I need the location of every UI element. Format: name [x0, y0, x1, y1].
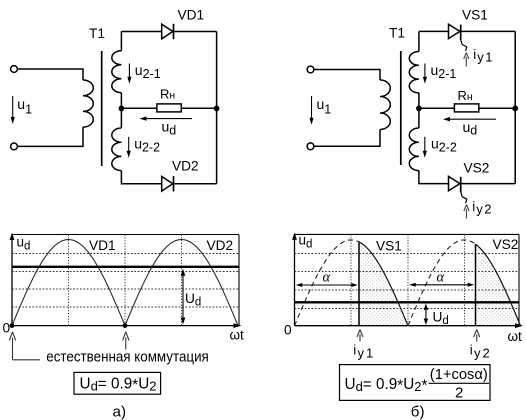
svg-text:0: 0 — [284, 323, 292, 338]
svg-text:естественная коммутация: естественная коммутация — [46, 349, 209, 366]
svg-text:VD1: VD1 — [89, 238, 116, 253]
svg-text:ωt: ωt — [230, 328, 245, 343]
svg-text:VD2: VD2 — [207, 238, 234, 253]
svg-text:VS2: VS2 — [493, 237, 519, 252]
svg-text:а): а) — [113, 404, 127, 420]
svg-text:0: 0 — [3, 320, 11, 335]
svg-text:Rн: Rн — [458, 88, 473, 103]
svg-text:Ud= 0.9*U2: Ud= 0.9*U2 — [80, 376, 157, 395]
svg-text:Rн: Rн — [160, 87, 175, 102]
svg-text:(1+cosα): (1+cosα) — [430, 366, 488, 383]
svg-text:VD1: VD1 — [178, 8, 205, 23]
svg-text:VD2: VD2 — [172, 158, 199, 173]
svg-text:2: 2 — [455, 384, 463, 401]
svg-text:Ud= 0.9*U2*: Ud= 0.9*U2* — [345, 376, 428, 395]
svg-text:T1: T1 — [89, 26, 105, 41]
svg-text:α: α — [437, 270, 445, 286]
svg-text:VS1: VS1 — [376, 238, 402, 253]
svg-text:T1: T1 — [389, 26, 405, 41]
svg-text:α: α — [323, 270, 331, 286]
svg-text:б): б) — [411, 404, 425, 420]
svg-text:VS1: VS1 — [462, 8, 488, 23]
svg-text:ωt: ωt — [508, 329, 523, 344]
svg-text:VS2: VS2 — [464, 161, 490, 176]
